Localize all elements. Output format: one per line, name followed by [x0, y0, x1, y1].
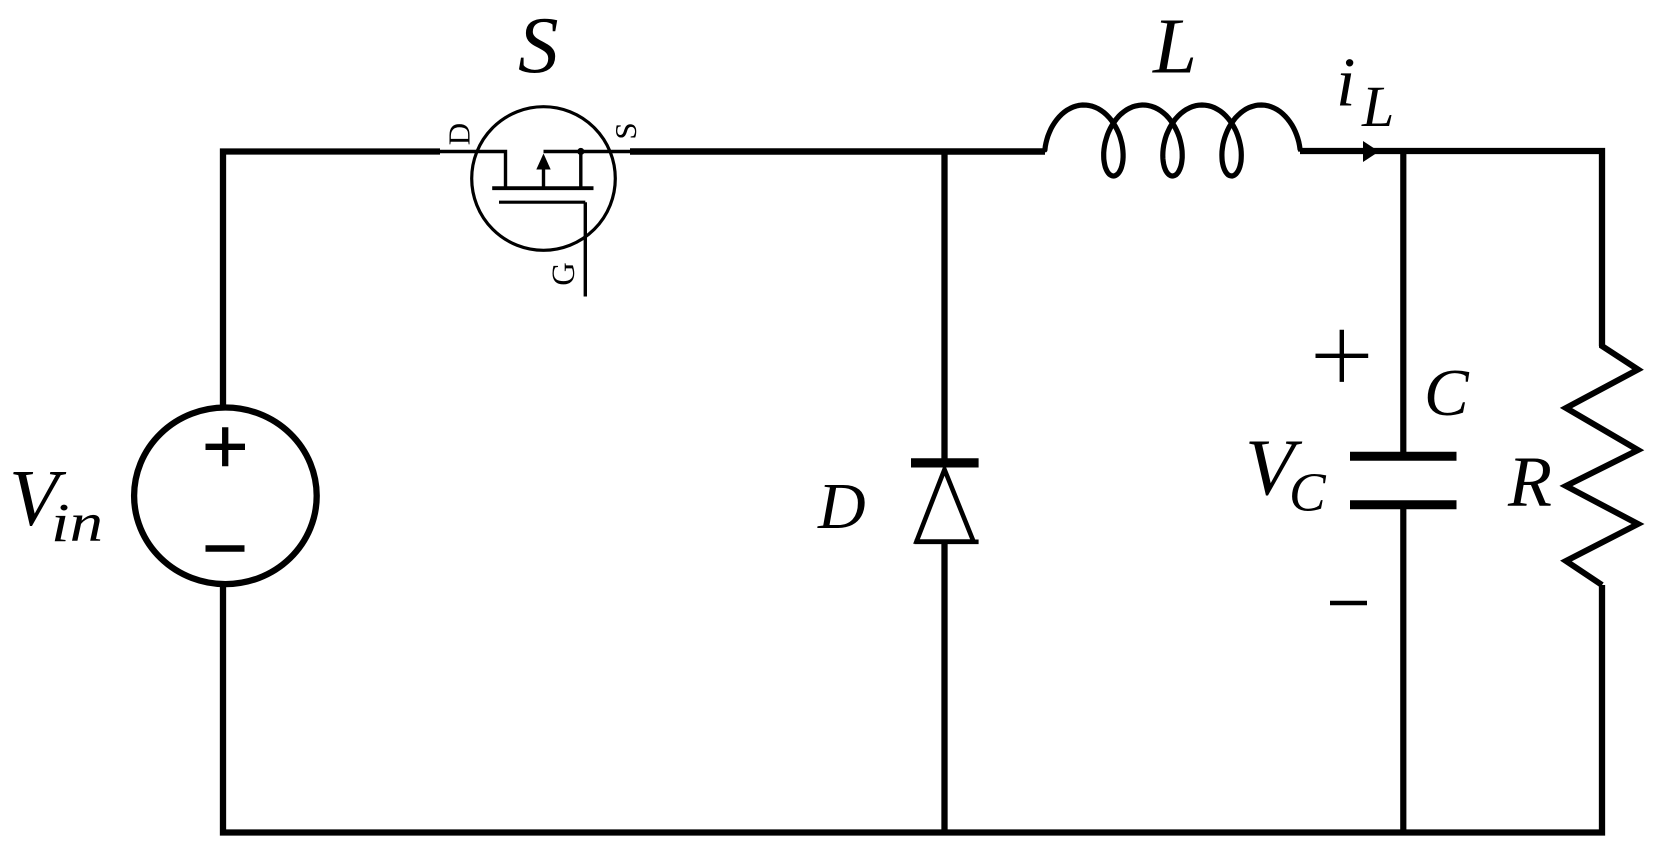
svg-text:L: L — [1152, 3, 1197, 90]
svg-text:C: C — [1289, 462, 1327, 523]
wire: diode branch upper — [941, 152, 947, 462]
svg-text:i: i — [1336, 45, 1355, 122]
svg-text:D: D — [817, 470, 866, 543]
wire: capacitor branch lower — [1400, 504, 1406, 833]
svg-text:C: C — [1424, 356, 1470, 430]
svg-text:D: D — [442, 123, 477, 145]
diode D — [911, 463, 979, 542]
arrow for current iL — [1363, 141, 1379, 162]
svg-text:in: in — [51, 492, 103, 553]
wire: Vin top lead up and across to MOSFET drain — [223, 152, 440, 407]
wire: MOSFET source to diode/inductor node — [630, 148, 1045, 155]
svg-text:G: G — [546, 262, 582, 285]
inductor L — [1044, 105, 1301, 176]
wire: inductor to top-right corner and down to resistor — [1300, 151, 1602, 346]
capacitor C — [1350, 456, 1457, 504]
wire: diode branch lower — [941, 540, 947, 833]
svg-text:S: S — [608, 122, 643, 139]
svg-text:R: R — [1507, 442, 1552, 522]
svg-text:L: L — [1361, 74, 1394, 139]
wire: capacitor branch upper — [1400, 151, 1406, 457]
minus sign for Vc — [1330, 601, 1367, 605]
wire: bottom rail from Vin minus around to resistor bottom — [223, 585, 1602, 833]
voltage source Vin — [134, 408, 317, 585]
transistor S (MOSFET) — [437, 107, 634, 297]
resistor R — [1566, 344, 1638, 585]
svg-text:S: S — [518, 0, 559, 90]
plus sign for Vc — [1316, 330, 1369, 382]
